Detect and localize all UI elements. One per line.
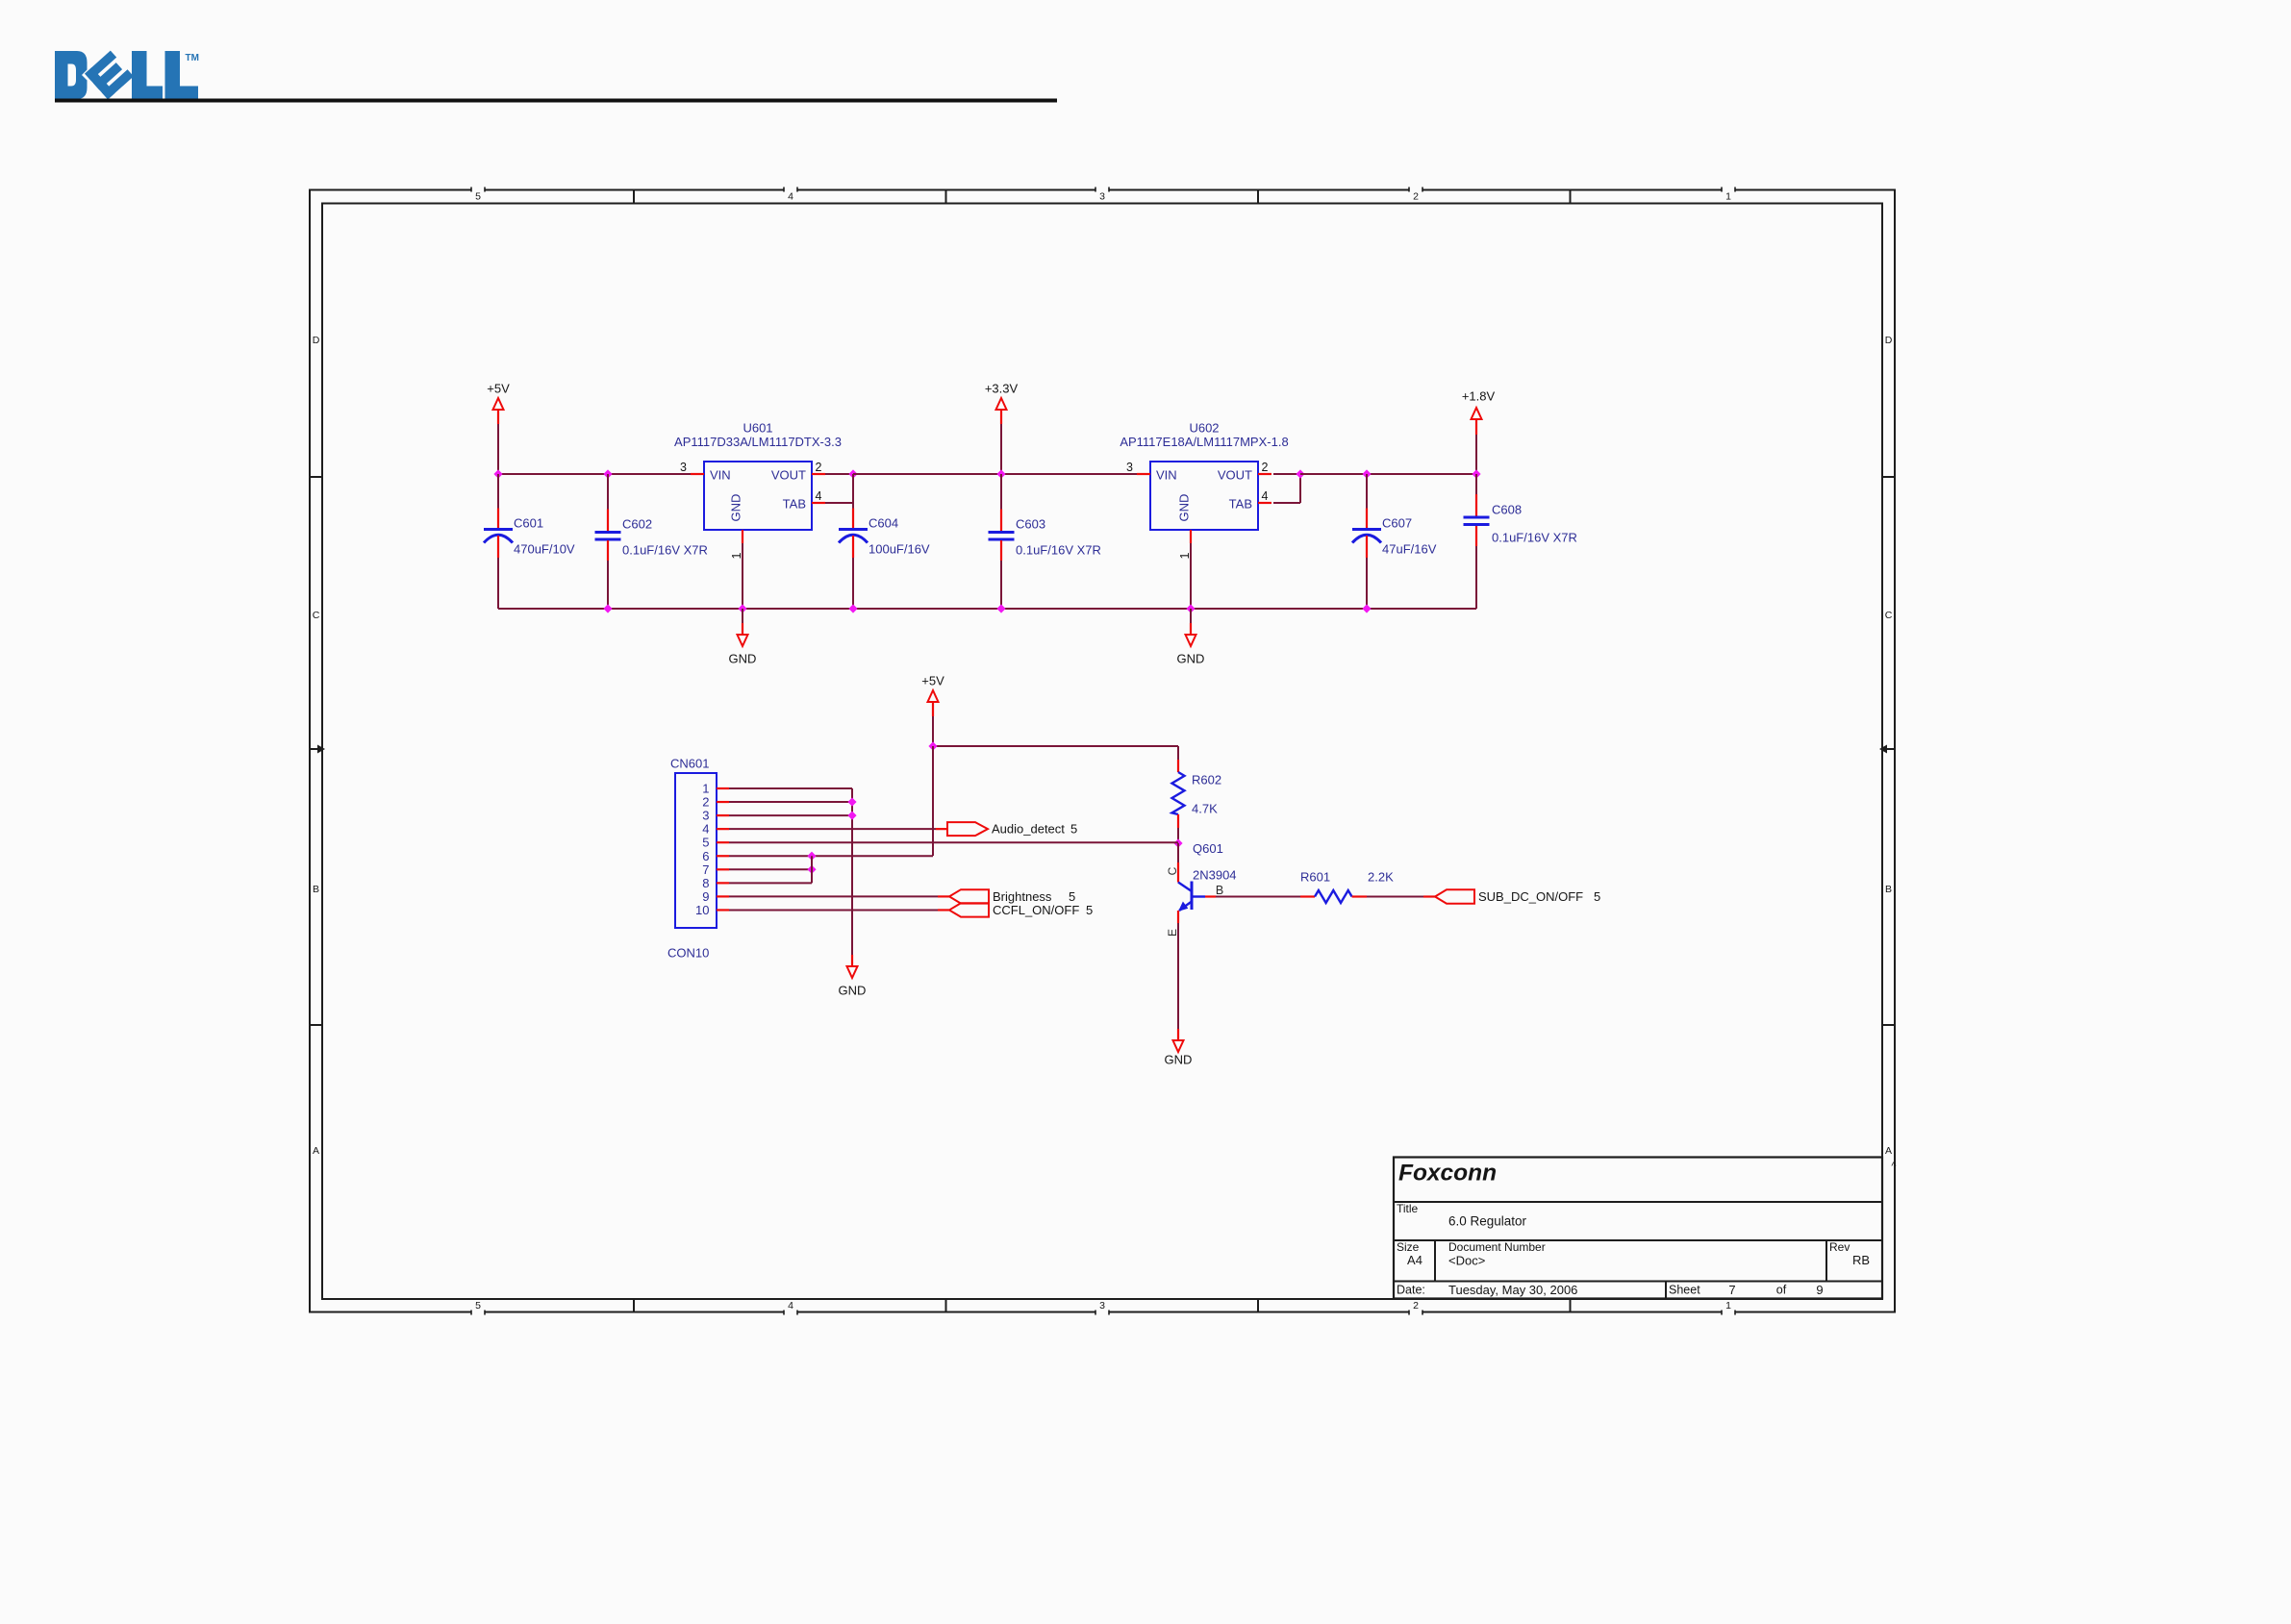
- node U601 VOUT/C604: [848, 469, 857, 478]
- svg-text:3: 3: [1126, 461, 1133, 474]
- svg-text:C602: C602: [622, 517, 652, 532]
- wire pin5 to R602 node: [729, 841, 1178, 843]
- ground symbol Q601: [1165, 1029, 1193, 1067]
- svg-text:Audio_detect: Audio_detect: [992, 822, 1065, 837]
- svg-text:1: 1: [1725, 191, 1731, 203]
- svg-text:5: 5: [475, 191, 481, 203]
- capacitor C608: [1464, 474, 1577, 609]
- node +1.8V/C608: [1472, 469, 1480, 478]
- svg-text:6.0 Regulator: 6.0 Regulator: [1448, 1214, 1527, 1229]
- node +3.3V/C603: [996, 469, 1005, 478]
- svg-text:E: E: [1166, 929, 1179, 937]
- svg-text:Foxconn: Foxconn: [1398, 1161, 1497, 1187]
- svg-text:TAB: TAB: [1229, 497, 1252, 512]
- svg-text:2: 2: [816, 461, 822, 474]
- svg-text:4: 4: [1262, 489, 1269, 503]
- header underline: [55, 99, 1057, 103]
- svg-text:2: 2: [1262, 461, 1269, 474]
- svg-text:1: 1: [1725, 1300, 1731, 1312]
- node C607 top: [1362, 469, 1371, 478]
- svg-text:4: 4: [702, 822, 709, 837]
- connector CN601: [667, 757, 729, 961]
- ground symbol U601: [729, 609, 757, 666]
- svg-text:C607: C607: [1382, 516, 1412, 531]
- svg-text:^: ^: [1891, 1161, 1897, 1172]
- svg-text:Document Number: Document Number: [1448, 1240, 1546, 1254]
- svg-text:3: 3: [1099, 1300, 1105, 1312]
- svg-text:TAB: TAB: [783, 497, 806, 512]
- resistor R602 4.7K: [1172, 760, 1222, 843]
- wire 1.8V bus (U602 to C608): [1300, 473, 1476, 475]
- sheet border frame: [310, 187, 1897, 1315]
- svg-text:5: 5: [1594, 889, 1600, 904]
- svg-text:GND: GND: [839, 984, 867, 998]
- svg-text:C: C: [1885, 610, 1893, 621]
- node ground bus x=1238: [1186, 604, 1195, 612]
- wire pin2: [729, 801, 852, 803]
- svg-text:3: 3: [702, 809, 709, 823]
- node ground bus x=632: [603, 604, 612, 612]
- svg-text:5: 5: [475, 1300, 481, 1312]
- node ground bus x=1421: [1362, 604, 1371, 612]
- node R602/collector/pin5: [1173, 838, 1182, 847]
- svg-text:9: 9: [1816, 1283, 1823, 1297]
- svg-text:B: B: [1216, 884, 1223, 897]
- svg-text:7: 7: [1728, 1283, 1735, 1297]
- wire pin1: [729, 787, 852, 789]
- title block: [1394, 1158, 1882, 1300]
- wire TAB U601 to node: [825, 474, 853, 503]
- svg-text:C608: C608: [1492, 503, 1522, 517]
- svg-text:2: 2: [1413, 1300, 1419, 1312]
- power +3.3V: [985, 382, 1019, 475]
- net flag CCFL_ON/OFF: [949, 903, 1093, 917]
- svg-text:Sheet: Sheet: [1669, 1284, 1700, 1297]
- svg-text:0.1uF/16V X7R: 0.1uF/16V X7R: [1492, 531, 1577, 545]
- node ground bus x=1041: [996, 604, 1005, 612]
- svg-text:47uF/16V: 47uF/16V: [1382, 542, 1437, 557]
- wire pin4: [729, 828, 947, 830]
- svg-text:B: B: [313, 884, 319, 895]
- wire pin7: [729, 868, 812, 870]
- ground symbol CN601: [839, 955, 867, 998]
- wire +5V down to pin6: [932, 746, 934, 856]
- net flag Audio_detect: [947, 822, 1077, 837]
- svg-text:5: 5: [1070, 822, 1077, 837]
- svg-text:A: A: [313, 1145, 319, 1157]
- svg-text:C601: C601: [514, 516, 543, 531]
- capacitor C604: [839, 474, 930, 609]
- svg-text:2N3904: 2N3904: [1193, 868, 1237, 883]
- svg-text:+5V: +5V: [487, 382, 510, 396]
- svg-text:GND: GND: [1177, 652, 1205, 666]
- wire VIN bus (+5V rail to U601): [497, 473, 691, 475]
- svg-text:2: 2: [702, 795, 709, 810]
- svg-text:VOUT: VOUT: [771, 468, 806, 483]
- power +1.8V: [1462, 389, 1496, 475]
- capacitor C602: [595, 474, 708, 609]
- regulator U601: [674, 421, 842, 610]
- node pin3 junction: [847, 812, 856, 820]
- svg-text:4.7K: 4.7K: [1192, 802, 1218, 816]
- svg-text:2: 2: [1413, 191, 1419, 203]
- svg-text:CCFL_ON/OFF: CCFL_ON/OFF: [993, 903, 1079, 917]
- svg-text:RB: RB: [1852, 1253, 1870, 1267]
- svg-text:<Doc>: <Doc>: [1448, 1254, 1485, 1268]
- svg-text:C: C: [1166, 866, 1179, 875]
- svg-text:5: 5: [1086, 903, 1093, 917]
- svg-text:AP1117D33A/LM1117DTX-3.3: AP1117D33A/LM1117DTX-3.3: [674, 435, 842, 449]
- svg-text:A: A: [1885, 1145, 1892, 1157]
- svg-text:of: of: [1776, 1284, 1787, 1297]
- svg-text:1: 1: [702, 782, 709, 796]
- node pin2 junction: [847, 797, 856, 806]
- transistor Q601 2N3904: [1166, 841, 1237, 937]
- svg-text:4: 4: [788, 1300, 793, 1312]
- power +5V (lower): [921, 674, 944, 747]
- svg-text:10: 10: [695, 903, 709, 917]
- svg-text:VOUT: VOUT: [1218, 468, 1252, 483]
- svg-text:CON10: CON10: [667, 946, 709, 961]
- svg-text:Size: Size: [1397, 1240, 1420, 1254]
- resistor R601 2.2K: [1300, 870, 1394, 904]
- svg-text:0.1uF/16V X7R: 0.1uF/16V X7R: [622, 543, 708, 558]
- wire 3.3V bus (C604 to U602): [853, 473, 1137, 475]
- capacitor C603: [989, 474, 1101, 609]
- wire pin8: [729, 856, 812, 883]
- svg-text:C604: C604: [869, 516, 898, 531]
- node pin7 junction: [807, 865, 816, 874]
- svg-text:GND: GND: [729, 652, 757, 666]
- svg-text:GND: GND: [729, 494, 743, 522]
- capacitor C601: [484, 474, 575, 609]
- node ground bus x=887: [848, 604, 857, 612]
- svg-text:Brightness: Brightness: [993, 889, 1052, 904]
- node U602 VOUT: [1296, 469, 1304, 478]
- svg-text:+1.8V: +1.8V: [1462, 389, 1496, 404]
- svg-text:U601: U601: [743, 421, 772, 436]
- svg-text:5: 5: [1069, 889, 1075, 904]
- svg-text:Title: Title: [1397, 1202, 1419, 1215]
- svg-text:VIN: VIN: [710, 468, 731, 483]
- wire pin6: [729, 855, 933, 857]
- capacitor C607: [1352, 474, 1437, 609]
- node +5V/C601 junction: [493, 469, 502, 478]
- wire R601 to flag: [1367, 896, 1435, 898]
- svg-text:6: 6: [702, 849, 709, 863]
- node +5V rail: [928, 741, 937, 750]
- svg-text:R602: R602: [1192, 773, 1221, 787]
- power +5V: [487, 382, 510, 475]
- svg-text:5: 5: [702, 836, 709, 850]
- wire pin9: [729, 895, 949, 897]
- svg-text:VIN: VIN: [1156, 468, 1177, 483]
- wire base to R601: [1205, 895, 1300, 897]
- wire pin10: [729, 909, 949, 911]
- wire GND vertical CN601: [851, 788, 853, 955]
- svg-text:0.1uF/16V X7R: 0.1uF/16V X7R: [1016, 543, 1101, 558]
- svg-text:8: 8: [702, 876, 709, 890]
- svg-text:D: D: [1885, 335, 1893, 346]
- svg-text:3: 3: [680, 461, 687, 474]
- svg-text:SUB_DC_ON/OFF: SUB_DC_ON/OFF: [1478, 889, 1583, 904]
- net flag Brightness: [949, 889, 1075, 904]
- svg-text:Q601: Q601: [1193, 841, 1223, 856]
- svg-text:2.2K: 2.2K: [1368, 870, 1394, 885]
- svg-text:D: D: [313, 335, 320, 346]
- svg-text:1: 1: [1178, 552, 1192, 559]
- svg-text:AP1117E18A/LM1117MPX-1.8: AP1117E18A/LM1117MPX-1.8: [1120, 435, 1288, 449]
- wire VOUT U601 to node: [825, 473, 853, 475]
- svg-text:C: C: [313, 610, 320, 621]
- svg-text:1: 1: [730, 552, 743, 559]
- svg-text:+5V: +5V: [921, 674, 944, 688]
- svg-text:+3.3V: +3.3V: [985, 382, 1019, 396]
- wire VOUT U602 to node: [1273, 473, 1300, 475]
- svg-text:TM: TM: [186, 53, 199, 63]
- wire +5V rail to R602: [933, 746, 1178, 760]
- svg-text:GND: GND: [1165, 1053, 1193, 1067]
- svg-text:GND: GND: [1177, 494, 1192, 522]
- Dell logo: [55, 48, 199, 103]
- svg-text:3: 3: [1099, 191, 1105, 203]
- node pin6 junction: [807, 852, 816, 861]
- svg-text:C603: C603: [1016, 517, 1045, 532]
- svg-text:Rev: Rev: [1829, 1240, 1850, 1254]
- regulator U602: [1120, 421, 1288, 610]
- svg-text:B: B: [1885, 884, 1892, 895]
- wire TAB U602 to node: [1273, 474, 1300, 503]
- svg-text:7: 7: [702, 862, 709, 877]
- svg-text:Tuesday, May 30, 2006: Tuesday, May 30, 2006: [1448, 1283, 1577, 1297]
- svg-text:CN601: CN601: [670, 757, 709, 771]
- node C602 junction top: [603, 469, 612, 478]
- svg-text:U602: U602: [1189, 421, 1219, 436]
- svg-text:100uF/16V: 100uF/16V: [869, 542, 930, 557]
- svg-text:A4: A4: [1407, 1253, 1422, 1267]
- ground symbol U602: [1177, 609, 1205, 666]
- svg-text:R601: R601: [1300, 870, 1330, 885]
- svg-text:Date:: Date:: [1397, 1284, 1425, 1297]
- wire ground bus: [498, 608, 1476, 610]
- wire emitter to GND: [1177, 923, 1179, 1029]
- svg-text:9: 9: [702, 889, 709, 904]
- node ground bus x=772: [738, 604, 746, 612]
- svg-text:4: 4: [816, 489, 822, 503]
- svg-text:4: 4: [788, 191, 793, 203]
- svg-text:470uF/10V: 470uF/10V: [514, 542, 575, 557]
- wire pin3: [729, 814, 852, 816]
- net flag SUB_DC_ON/OFF: [1435, 889, 1600, 904]
